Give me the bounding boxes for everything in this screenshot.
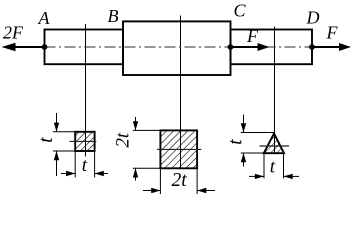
dimension t (vertical, section 3) (226, 115, 275, 167)
section line 3 (through CD bar down to triangle) (274, 27, 276, 154)
force F arrow at C (228, 26, 270, 51)
dimension 2t (vertical, section 2) (113, 117, 161, 181)
bar segment AB (45, 30, 124, 65)
centerline horizontal of section 3 (260, 145, 290, 147)
svg-text:F: F (246, 26, 259, 46)
dimension t (horizontal, section 1) (61, 151, 108, 177)
svg-text:2t: 2t (172, 170, 188, 191)
section line 2 (through BC bar down to square 2t) (180, 16, 182, 169)
cross-section 2: square 2t x 2t (157, 130, 201, 168)
extension lines (74, 151, 76, 177)
dimension line with outside arrows (143, 190, 160, 192)
centerline horizontal of section 2 (157, 148, 201, 150)
extension lines (263, 153, 265, 179)
svg-text:t: t (36, 137, 57, 143)
section line 1 (through AB bar down to square t) (85, 24, 87, 157)
cross-section 3: triangle t x t (260, 133, 290, 153)
svg-text:t: t (82, 155, 88, 176)
dimension line with outside arrows (243, 115, 245, 133)
dimension t (horizontal, section 3) (249, 153, 299, 179)
dimension line with outside arrows (56, 113, 58, 132)
bar segment BC (larger) (123, 21, 231, 75)
svg-text:t: t (270, 157, 276, 178)
bar segment CD (231, 30, 313, 65)
svg-text:2t: 2t (113, 132, 134, 148)
force 2F arrow at A (2, 23, 48, 52)
dimension line with outside arrows (249, 175, 264, 177)
extension lines (133, 129, 161, 131)
svg-text:B: B (108, 6, 119, 26)
extension lines (53, 131, 75, 133)
dimension line with outside arrows (61, 173, 75, 175)
dimension 2t (horizontal, section 2) (143, 168, 215, 194)
force F arrow at D (309, 23, 351, 52)
svg-text:C: C (234, 1, 247, 21)
cross-section 1: square t x t (70, 132, 97, 151)
dimension line with outside arrows (135, 117, 137, 130)
svg-text:F: F (326, 23, 339, 43)
shaft centerline (dash-dot) (45, 46, 314, 48)
svg-text:t: t (226, 139, 247, 145)
dimension t (vertical, section 1) (36, 113, 75, 176)
svg-text:A: A (38, 8, 51, 28)
extension lines (241, 132, 274, 134)
svg-text:D: D (306, 8, 320, 28)
centerline horizontal of section 1 (70, 140, 97, 142)
svg-text:2F: 2F (3, 23, 24, 43)
extension lines (159, 168, 161, 194)
